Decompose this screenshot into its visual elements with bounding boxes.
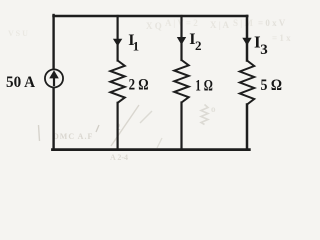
svg-text:50 A: 50 A bbox=[6, 74, 35, 91]
wire branch 2 lower bbox=[180, 103, 182, 150]
wire branch 3 upper bbox=[246, 16, 249, 61]
svg-text:V S U: V S U bbox=[8, 29, 28, 38]
current source 50 A (circle symbol) bbox=[45, 69, 63, 87]
current source arrow (points up) bbox=[49, 70, 59, 86]
current arrow I2 (down) bbox=[177, 37, 186, 45]
resistor R2 1 ohm bbox=[174, 60, 188, 103]
svg-text:X Q: X Q bbox=[146, 21, 162, 31]
label I1 bbox=[128, 32, 139, 54]
svg-text:= 1 x: = 1 x bbox=[272, 33, 291, 43]
resistor R1 2 ohm bbox=[110, 61, 124, 103]
wire left branch lower (source bottom to bottom rail) bbox=[52, 88, 54, 149]
svg-text:DMC A.F: DMC A.F bbox=[53, 132, 93, 141]
svg-text:2 Ω: 2 Ω bbox=[129, 76, 149, 93]
svg-text:1 Ω: 1 Ω bbox=[195, 78, 213, 95]
svg-text:S | M: S | M bbox=[233, 18, 253, 28]
current arrow I1 (down) bbox=[113, 39, 122, 46]
svg-text:X | A: X | A bbox=[210, 20, 229, 30]
svg-text:1: 1 bbox=[133, 38, 140, 53]
svg-text:5 Ω: 5 Ω bbox=[261, 77, 283, 94]
current arrow I3 (down) bbox=[242, 38, 251, 46]
label I2 bbox=[189, 31, 201, 53]
wire left branch upper (source top to top rail) bbox=[52, 15, 54, 69]
wire branch 2 upper bbox=[180, 16, 182, 60]
svg-text:3: 3 bbox=[260, 42, 268, 58]
label I3 bbox=[254, 32, 268, 58]
svg-text:A 2-4: A 2-4 bbox=[110, 153, 128, 162]
svg-text:= 0 x V: = 0 x V bbox=[258, 18, 286, 28]
wire branch 1 lower bbox=[116, 103, 118, 150]
wire bottom rail bbox=[53, 148, 250, 151]
resistor R3 5 ohm bbox=[240, 61, 254, 105]
svg-text:o: o bbox=[211, 104, 216, 114]
wire top rail bbox=[54, 15, 248, 17]
svg-text:2: 2 bbox=[195, 38, 202, 53]
wire branch 3 lower bbox=[246, 105, 249, 150]
wire branch 1 upper bbox=[116, 16, 118, 61]
